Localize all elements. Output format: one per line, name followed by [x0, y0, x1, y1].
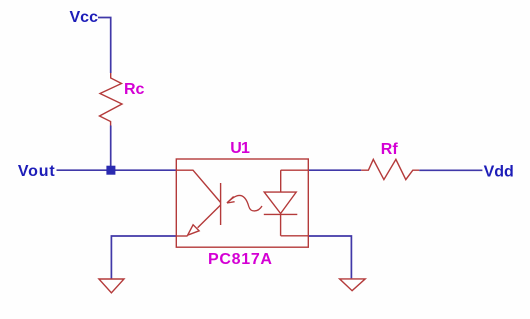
svg-text:PC817A: PC817A	[208, 251, 273, 268]
svg-text:Rc: Rc	[124, 81, 145, 98]
svg-text:Vout: Vout	[18, 163, 56, 180]
svg-text:U1: U1	[230, 140, 250, 157]
svg-text:Vdd: Vdd	[484, 164, 514, 181]
svg-text:Vcc: Vcc	[70, 9, 99, 26]
svg-text:Rf: Rf	[381, 141, 399, 158]
